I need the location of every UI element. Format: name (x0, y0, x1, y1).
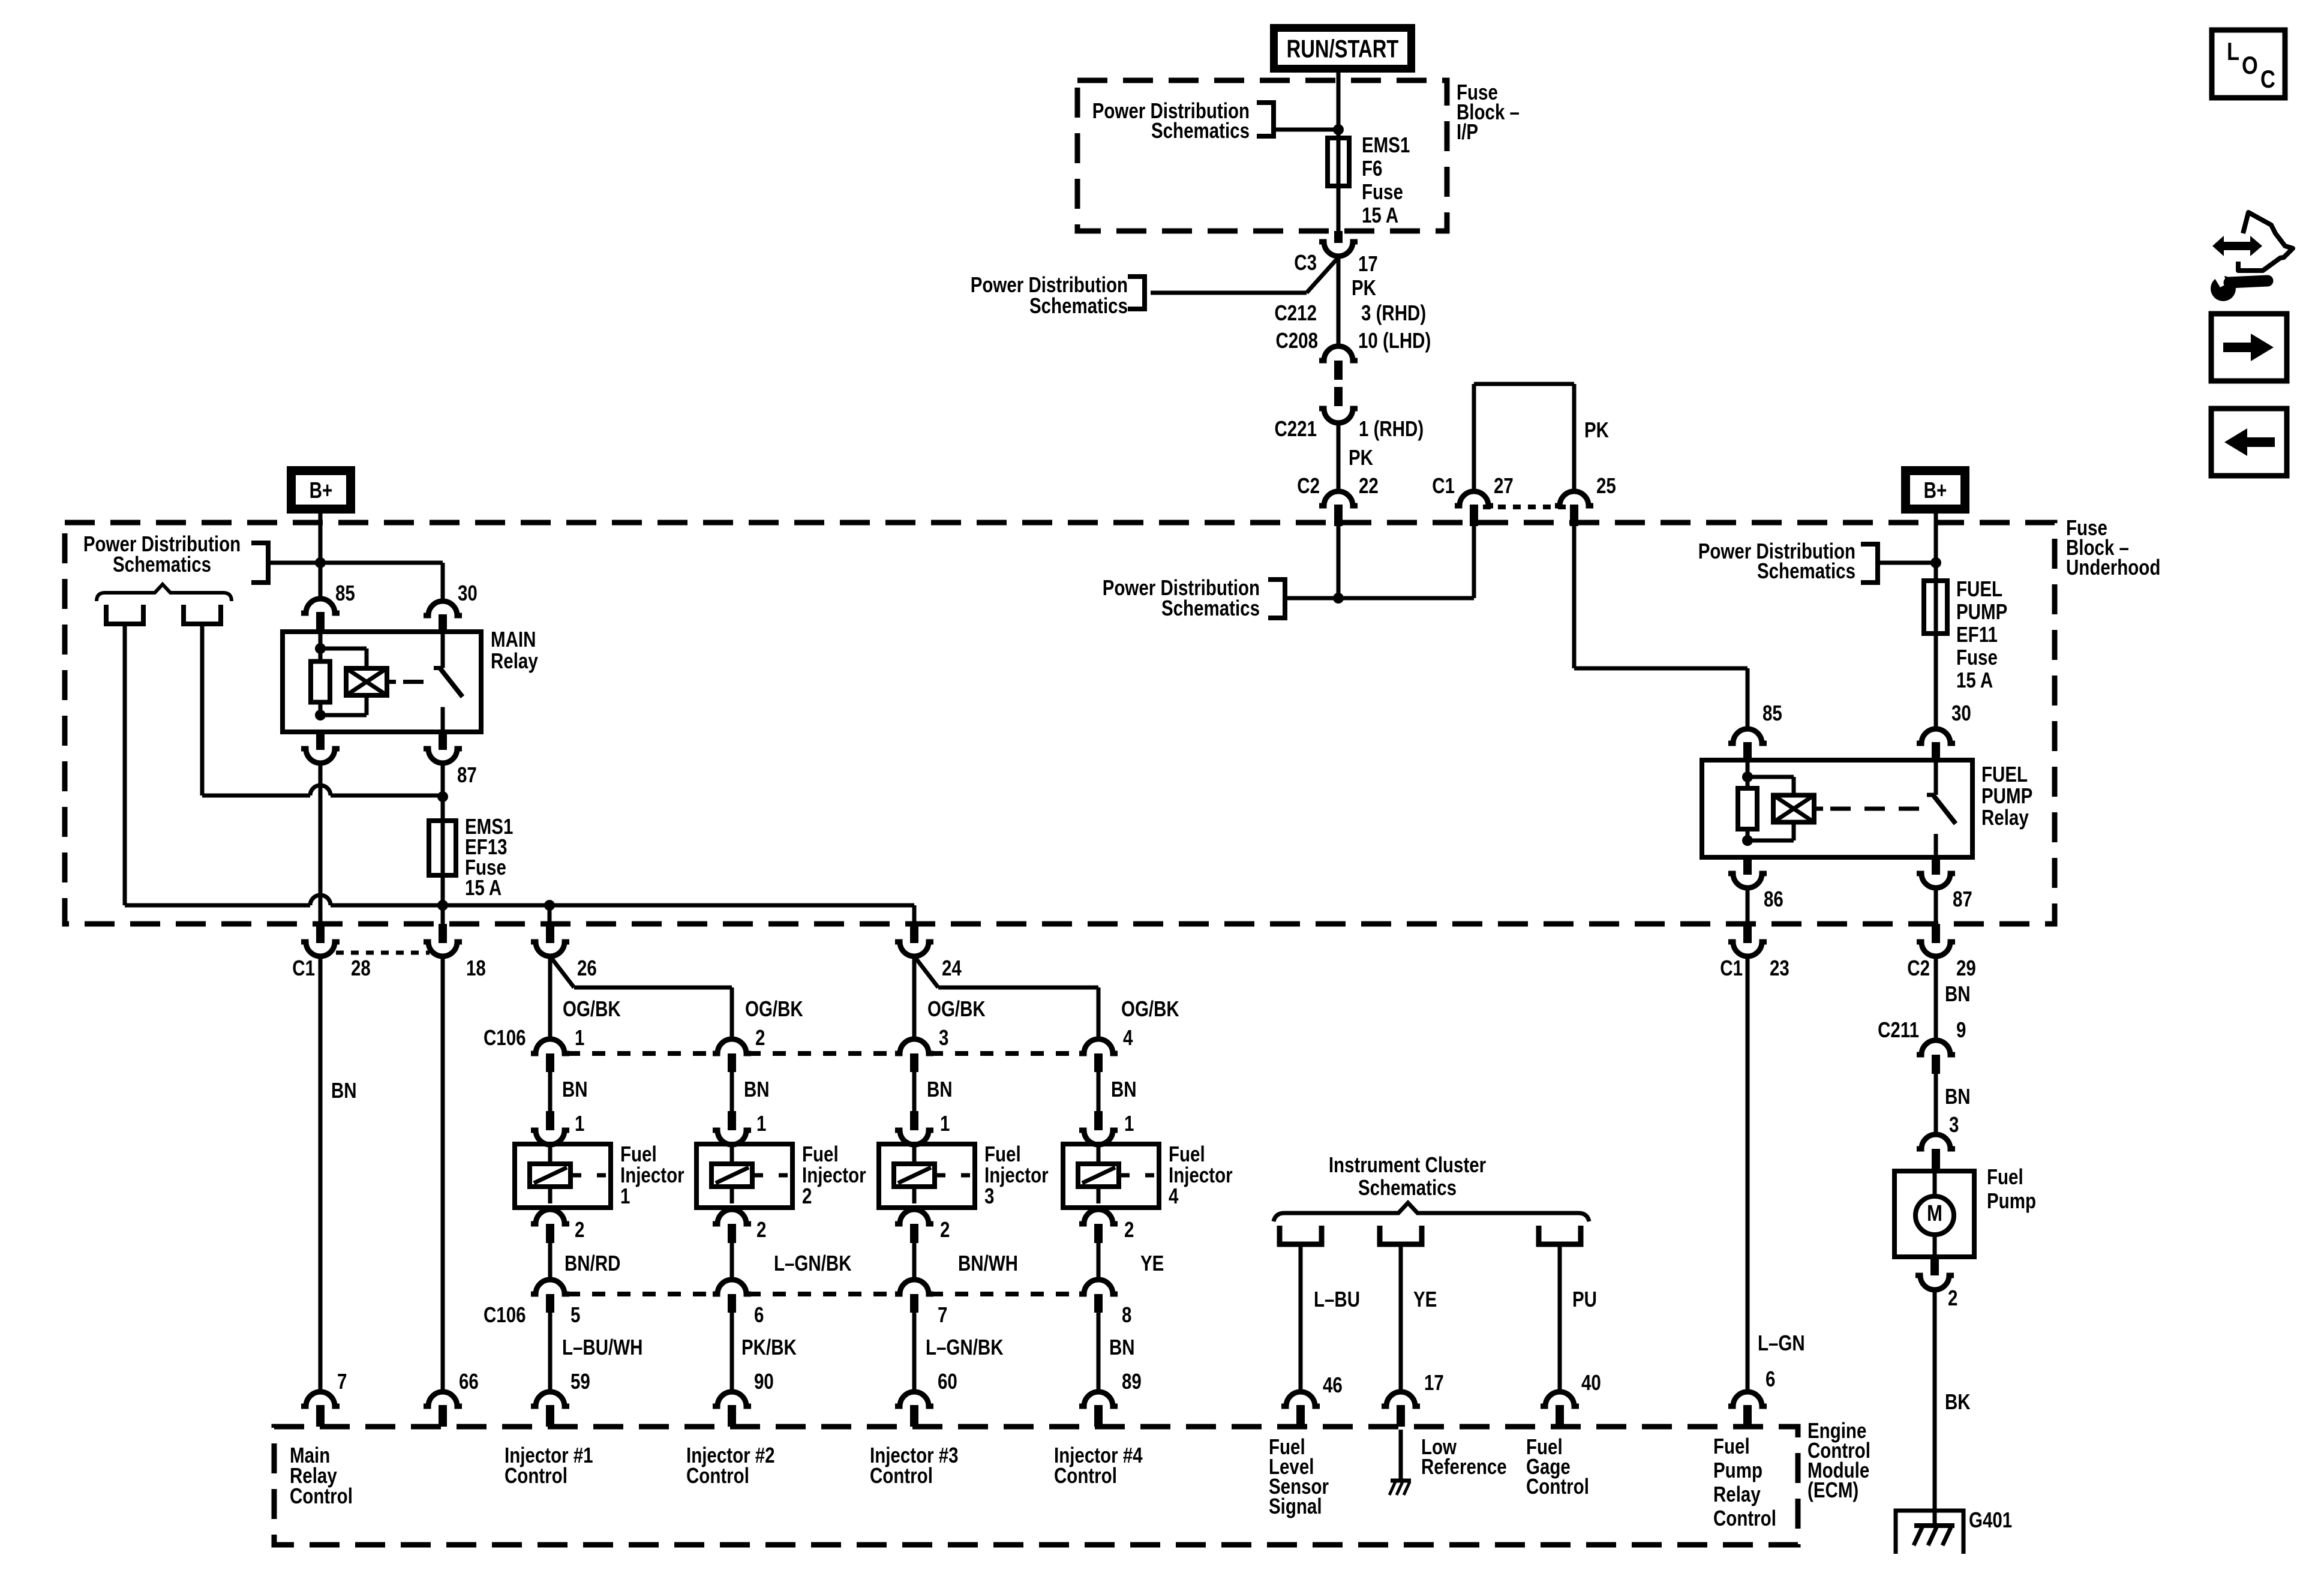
svg-text:M: M (1927, 1201, 1942, 1226)
svg-text:C1: C1 (1432, 473, 1455, 497)
svg-text:BN: BN (1945, 1084, 1971, 1108)
svg-text:C221: C221 (1274, 416, 1317, 440)
svg-text:MAIN: MAIN (491, 627, 536, 651)
svg-text:22: 22 (1359, 473, 1379, 497)
svg-text:87: 87 (1953, 887, 1972, 911)
svg-text:B+: B+ (1924, 478, 1947, 503)
svg-text:BN/RD: BN/RD (565, 1251, 620, 1275)
svg-text:C211: C211 (1878, 1017, 1919, 1041)
svg-text:YE: YE (1140, 1251, 1164, 1275)
svg-text:2: 2 (802, 1184, 812, 1208)
svg-text:90: 90 (754, 1369, 774, 1393)
svg-text:5: 5 (571, 1302, 580, 1326)
svg-text:60: 60 (938, 1369, 957, 1393)
svg-text:BK: BK (1945, 1389, 1971, 1413)
svg-text:BN/WH: BN/WH (958, 1251, 1018, 1275)
svg-text:YE: YE (1413, 1287, 1437, 1311)
svg-text:Relay: Relay (1713, 1482, 1761, 1506)
svg-text:1: 1 (620, 1184, 630, 1208)
svg-text:L–BU: L–BU (1314, 1287, 1360, 1311)
svg-text:4: 4 (1123, 1025, 1133, 1049)
svg-text:L: L (2227, 38, 2239, 66)
svg-text:Reference: Reference (1421, 1454, 1507, 1478)
svg-text:Schematics: Schematics (1029, 293, 1128, 317)
svg-text:2: 2 (1948, 1286, 1957, 1310)
svg-text:2: 2 (756, 1217, 766, 1241)
svg-text:OG/BK: OG/BK (745, 996, 803, 1020)
svg-text:L–GN: L–GN (1758, 1331, 1805, 1355)
svg-text:6: 6 (1765, 1367, 1775, 1391)
svg-text:8: 8 (1122, 1302, 1131, 1326)
svg-text:I/P: I/P (1457, 119, 1478, 143)
svg-text:OG/BK: OG/BK (927, 996, 986, 1020)
svg-text:EF11: EF11 (1956, 622, 1998, 646)
svg-text:3 (RHD): 3 (RHD) (1361, 301, 1426, 325)
svg-text:Schematics: Schematics (1151, 118, 1250, 142)
svg-text:BN: BN (927, 1077, 953, 1101)
svg-text:PK: PK (1349, 445, 1373, 469)
svg-text:Fuel: Fuel (1987, 1164, 2023, 1188)
svg-text:RUN/START: RUN/START (1287, 35, 1399, 63)
svg-text:Pump: Pump (1713, 1458, 1762, 1482)
svg-text:3: 3 (939, 1025, 948, 1049)
svg-text:30: 30 (458, 581, 478, 605)
svg-text:BN: BN (744, 1077, 770, 1101)
svg-text:46: 46 (1323, 1373, 1343, 1397)
svg-text:O: O (2242, 52, 2258, 80)
svg-text:18: 18 (466, 956, 486, 980)
svg-text:15 A: 15 A (1956, 668, 1993, 692)
svg-text:BN: BN (1945, 981, 1971, 1005)
svg-text:85: 85 (1762, 701, 1782, 725)
svg-text:17: 17 (1358, 251, 1378, 275)
svg-text:15 A: 15 A (1362, 203, 1398, 227)
svg-text:26: 26 (577, 956, 597, 980)
svg-text:C1: C1 (292, 956, 315, 980)
svg-text:2: 2 (575, 1217, 584, 1241)
svg-text:BN: BN (331, 1078, 357, 1102)
svg-text:Fuse: Fuse (1956, 645, 1998, 669)
svg-text:1: 1 (1124, 1111, 1134, 1135)
svg-text:1: 1 (940, 1111, 950, 1135)
svg-text:30: 30 (1951, 701, 1971, 725)
svg-text:C2: C2 (1297, 473, 1320, 497)
svg-text:C208: C208 (1275, 328, 1318, 352)
svg-text:28: 28 (351, 956, 371, 980)
svg-text:Relay: Relay (491, 649, 538, 673)
svg-text:Control: Control (290, 1484, 353, 1508)
svg-text:Schematics: Schematics (1358, 1175, 1457, 1199)
svg-text:59: 59 (571, 1369, 590, 1393)
svg-text:PK/BK: PK/BK (741, 1335, 797, 1359)
svg-text:2: 2 (940, 1217, 950, 1241)
svg-text:27: 27 (1494, 473, 1514, 497)
svg-text:15 A: 15 A (465, 875, 502, 899)
svg-text:9: 9 (1956, 1017, 1966, 1041)
svg-text:PK: PK (1352, 275, 1376, 299)
svg-text:2: 2 (1124, 1217, 1134, 1241)
svg-text:2: 2 (755, 1025, 765, 1049)
svg-text:Underhood: Underhood (2066, 555, 2160, 579)
svg-text:BN: BN (562, 1077, 588, 1101)
svg-text:FUEL: FUEL (1956, 577, 2002, 601)
svg-text:Schematics: Schematics (1757, 559, 1855, 583)
svg-text:17: 17 (1424, 1370, 1444, 1394)
svg-text:4: 4 (1169, 1184, 1179, 1208)
svg-text:C106: C106 (484, 1302, 526, 1326)
svg-text:Control: Control (1054, 1463, 1117, 1487)
svg-text:C3: C3 (1294, 250, 1317, 274)
svg-text:Relay: Relay (1981, 805, 2029, 829)
svg-text:23: 23 (1770, 956, 1789, 980)
svg-text:L–GN/BK: L–GN/BK (774, 1251, 852, 1275)
svg-text:3: 3 (1949, 1112, 1959, 1136)
svg-text:BN: BN (1109, 1335, 1135, 1359)
svg-text:7: 7 (337, 1369, 347, 1393)
svg-text:Control: Control (1713, 1506, 1776, 1530)
svg-text:40: 40 (1581, 1370, 1601, 1394)
svg-text:Control: Control (686, 1463, 749, 1487)
svg-text:25: 25 (1596, 473, 1616, 497)
svg-text:7: 7 (938, 1302, 947, 1326)
svg-text:87: 87 (457, 763, 477, 787)
svg-text:10 (LHD): 10 (LHD) (1358, 328, 1431, 352)
svg-text:1: 1 (575, 1025, 584, 1049)
svg-text:Schematics: Schematics (1161, 596, 1260, 620)
svg-text:66: 66 (459, 1369, 479, 1393)
svg-text:G401: G401 (1969, 1508, 2012, 1532)
svg-text:29: 29 (1956, 956, 1976, 980)
svg-text:C2: C2 (1907, 956, 1930, 980)
svg-text:C212: C212 (1274, 301, 1317, 325)
svg-text:PK: PK (1584, 418, 1609, 442)
svg-text:FUEL: FUEL (1981, 762, 2028, 786)
svg-text:OG/BK: OG/BK (563, 996, 621, 1020)
svg-text:F6: F6 (1362, 156, 1382, 180)
svg-text:B+: B+ (310, 478, 333, 503)
svg-text:OG/BK: OG/BK (1121, 996, 1179, 1020)
svg-text:L–GN/BK: L–GN/BK (926, 1335, 1004, 1359)
svg-text:Fuse: Fuse (1362, 179, 1403, 203)
svg-text:3: 3 (984, 1184, 994, 1208)
svg-text:1: 1 (756, 1111, 766, 1135)
svg-text:24: 24 (942, 956, 962, 980)
svg-text:PUMP: PUMP (1956, 599, 2007, 623)
svg-text:Instrument Cluster: Instrument Cluster (1329, 1152, 1487, 1176)
svg-text:(ECM): (ECM) (1807, 1478, 1858, 1502)
svg-text:L–BU/WH: L–BU/WH (562, 1335, 642, 1359)
svg-text:Pump: Pump (1987, 1188, 2036, 1212)
svg-text:Control: Control (505, 1463, 568, 1487)
svg-text:C1: C1 (1720, 956, 1743, 980)
svg-text:1 (RHD): 1 (RHD) (1359, 416, 1424, 440)
svg-text:89: 89 (1122, 1369, 1142, 1393)
svg-text:Fuel: Fuel (1713, 1434, 1750, 1458)
svg-text:C: C (2260, 65, 2275, 94)
svg-text:EMS1: EMS1 (1362, 133, 1410, 157)
svg-text:PUMP: PUMP (1981, 784, 2032, 807)
svg-text:C106: C106 (484, 1025, 526, 1049)
svg-text:Control: Control (1526, 1474, 1589, 1498)
svg-text:1: 1 (575, 1111, 584, 1135)
svg-text:PU: PU (1572, 1287, 1597, 1311)
svg-text:BN: BN (1111, 1077, 1137, 1101)
svg-text:Control: Control (870, 1463, 933, 1487)
svg-text:Signal: Signal (1269, 1494, 1322, 1518)
svg-text:85: 85 (335, 581, 355, 605)
svg-text:6: 6 (754, 1302, 764, 1326)
svg-text:86: 86 (1764, 887, 1783, 911)
svg-text:Schematics: Schematics (113, 552, 211, 576)
